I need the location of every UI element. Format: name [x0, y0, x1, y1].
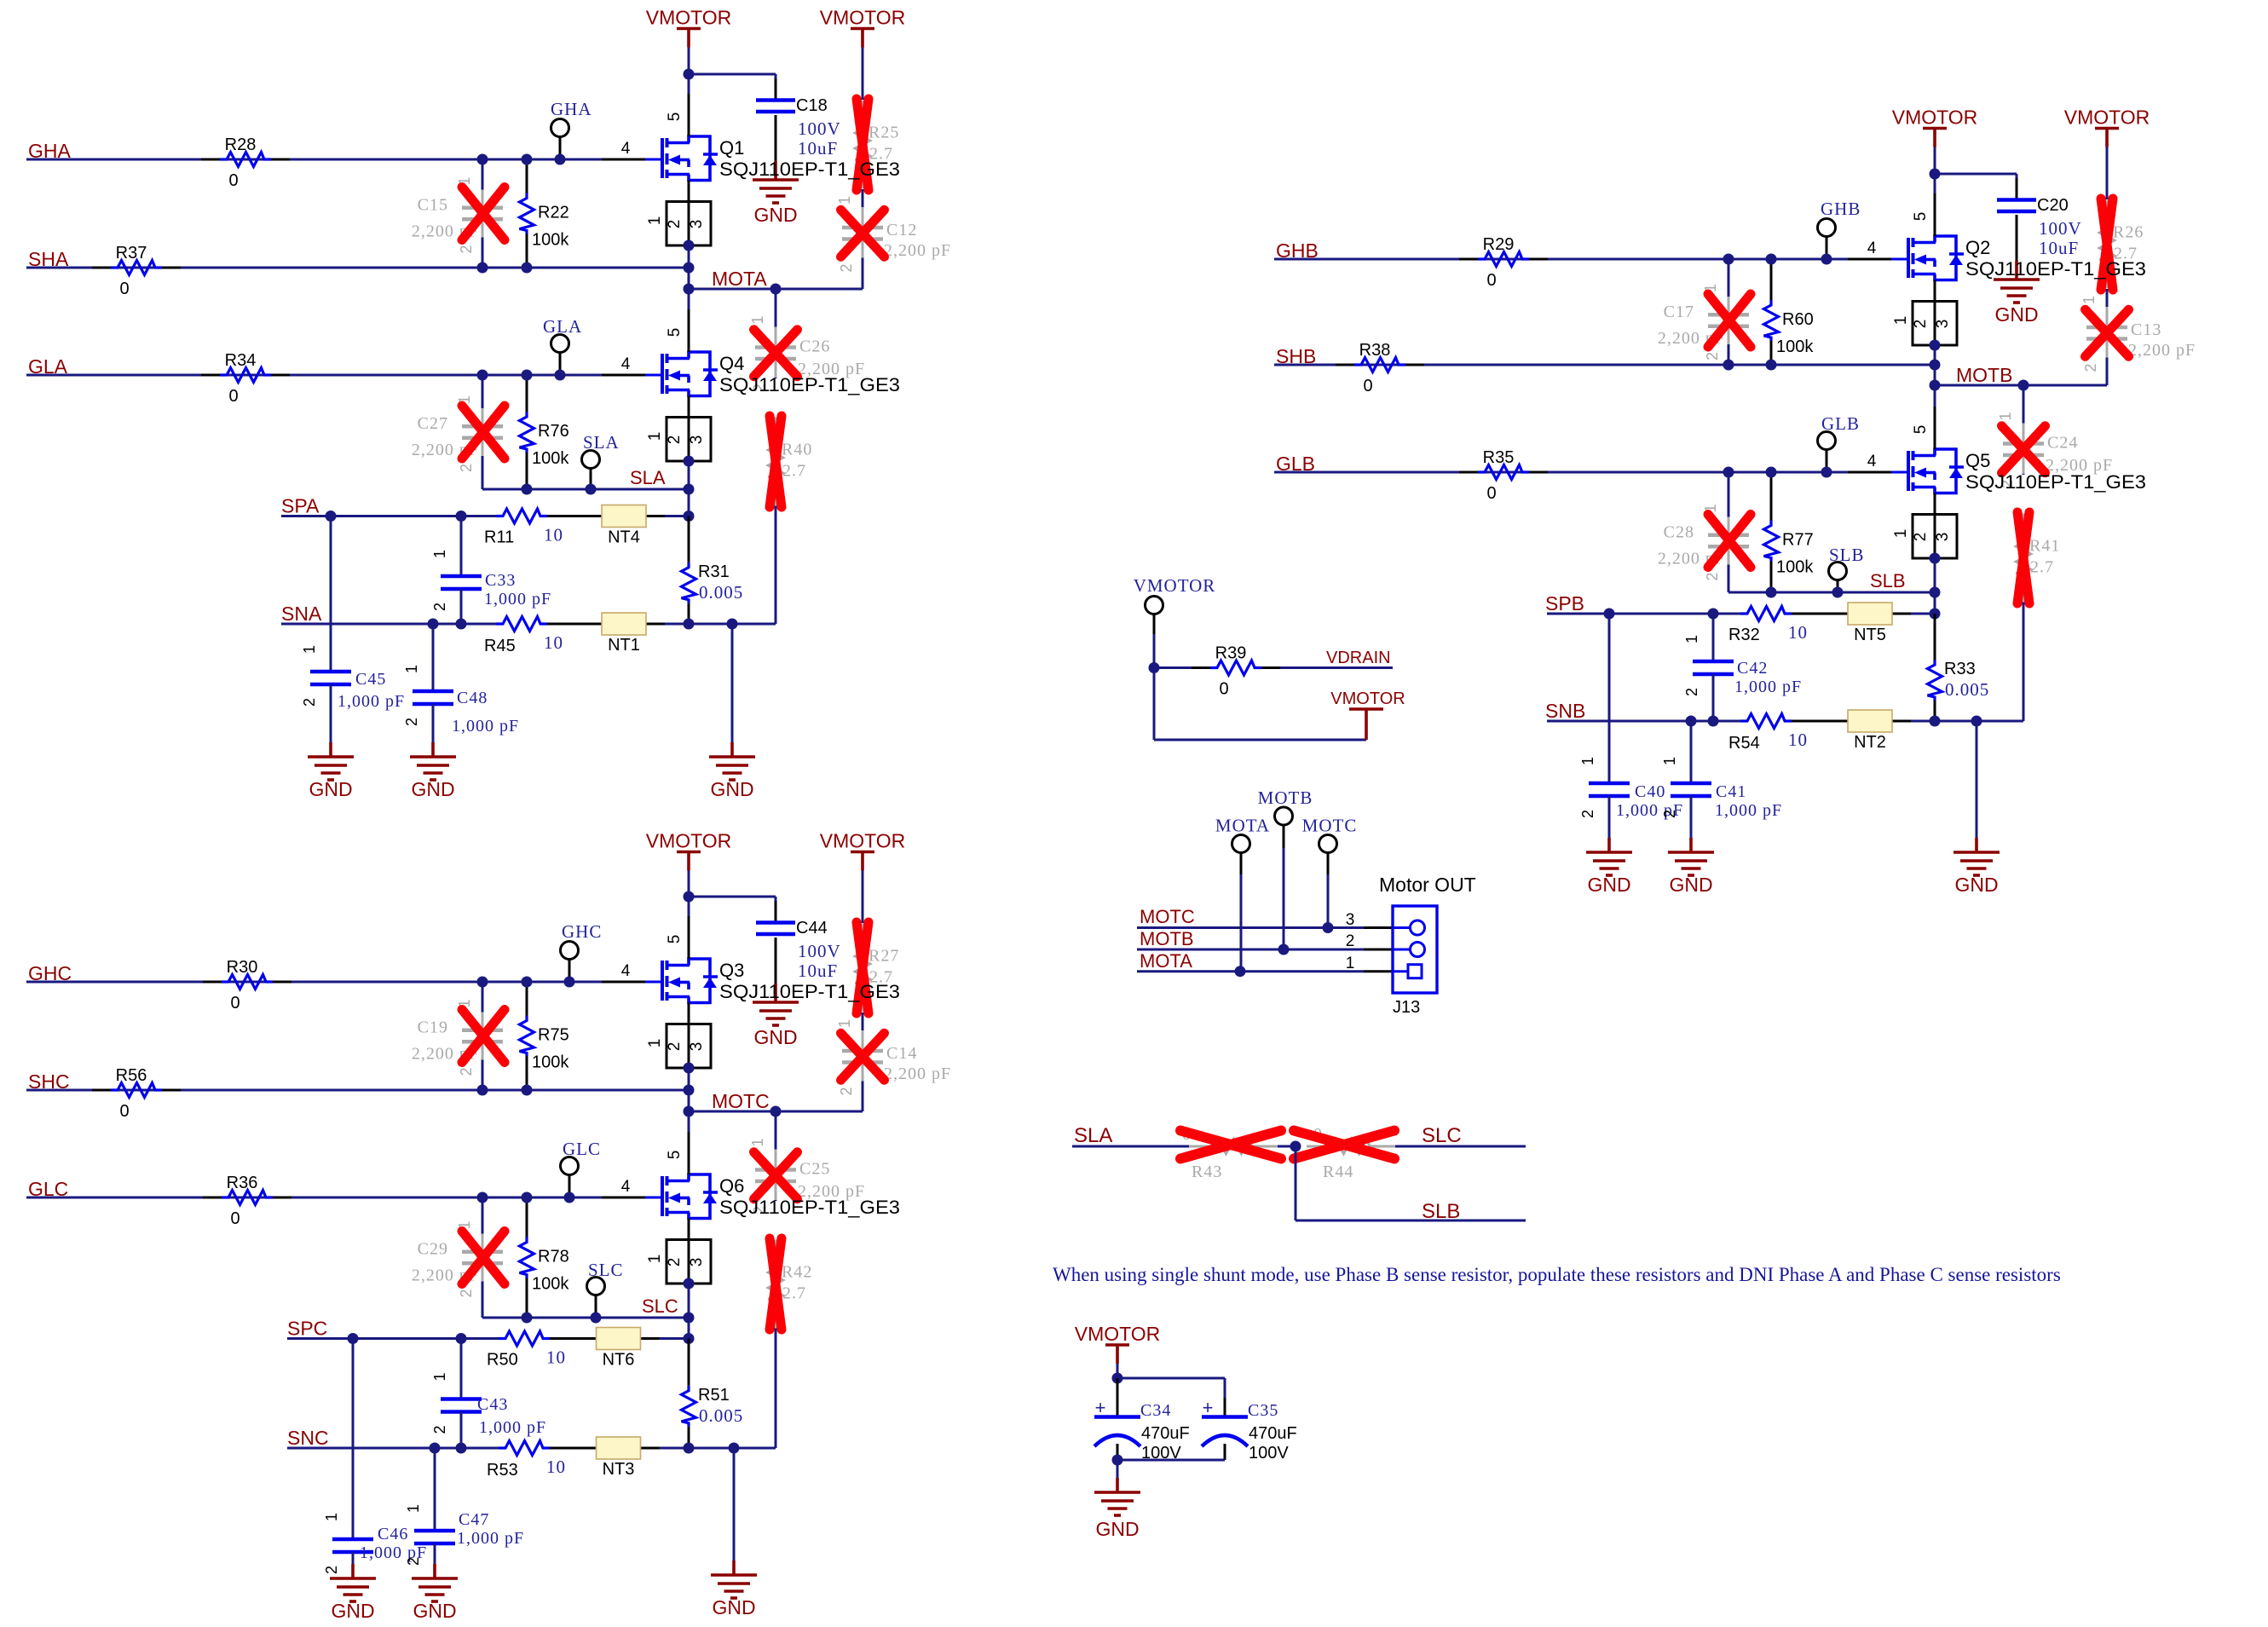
- terminal VMOTOR (VDRAIN feed): [1146, 597, 1163, 614]
- terminal SLC: [587, 1278, 605, 1295]
- svg-text:VDRAIN: VDRAIN: [1326, 649, 1391, 667]
- svg-text:GND: GND: [710, 778, 753, 800]
- capacitor C45 1,000 pF: [330, 516, 332, 672]
- resistor R39 0: [1154, 666, 1192, 669]
- node C19/SHC: [477, 1085, 488, 1096]
- wire junction to bypass cap C18: [689, 73, 776, 76]
- ground GND (SNA return): [731, 624, 734, 742]
- svg-text:C17: C17: [1664, 303, 1694, 321]
- svg-text:C44: C44: [796, 919, 828, 938]
- svg-text:1: 1: [749, 1138, 766, 1146]
- wire VMOTOR2 down: [862, 871, 864, 924]
- svg-text:4: 4: [1867, 239, 1877, 257]
- wire MOTA to J13 pin 1: [1137, 970, 1364, 972]
- svg-text:2: 2: [1661, 810, 1678, 818]
- node SNC/shunt: [684, 1443, 695, 1454]
- svg-text:470uF: 470uF: [1141, 1424, 1190, 1443]
- node GLC/C29: [477, 1192, 488, 1203]
- wire MOTB to J13 pin 2: [1137, 949, 1364, 951]
- node drain junction C-high: [684, 891, 695, 903]
- wire SNC row: [287, 1447, 499, 1450]
- capacitor C27 2,200 pF (DNI): [482, 375, 484, 408]
- terminal SLA: [582, 451, 600, 469]
- resistor R43 0 (DNI): [1189, 1145, 1208, 1148]
- wire SNB row: [1547, 720, 1740, 723]
- svg-text:NT2: NT2: [1854, 733, 1886, 752]
- svg-text:0: 0: [1486, 484, 1496, 503]
- wire GHB row: [1274, 258, 1848, 261]
- svg-text:C48: C48: [457, 689, 488, 707]
- svg-text:3: 3: [1346, 911, 1355, 929]
- svg-text:0.005: 0.005: [699, 1405, 743, 1426]
- node SLB terminal: [1832, 587, 1844, 598]
- resistor R50 10: [499, 1331, 550, 1346]
- wire GHC row: [26, 981, 602, 984]
- svg-text:SLC: SLC: [642, 1295, 678, 1317]
- node SLA terminal: [586, 484, 597, 495]
- svg-text:R54: R54: [1728, 734, 1760, 753]
- ground GND (SNB return): [1976, 721, 1978, 838]
- svg-text:2: 2: [2082, 363, 2099, 372]
- resistor R42 2.7 (DNI): [775, 1240, 777, 1264]
- node SNB/C41: [1686, 716, 1697, 727]
- svg-text:5: 5: [1912, 212, 1930, 222]
- resistor R56 0: [92, 1089, 111, 1092]
- node Q4 source: [684, 456, 695, 467]
- wire VMOTOR terminal down: [1153, 634, 1156, 668]
- svg-text:2: 2: [838, 263, 855, 272]
- wire VMOTOR stub down-right: [1153, 668, 1156, 741]
- svg-text:GND: GND: [411, 778, 454, 800]
- wire bottom rail: [1117, 1459, 1225, 1462]
- node SPC/C43: [456, 1333, 467, 1344]
- wire VMOTOR to drain junction: [688, 871, 690, 897]
- svg-text:1: 1: [646, 1039, 664, 1048]
- capacitor C25 2,200 pF (DNI): [775, 1111, 777, 1150]
- wire junction to bypass cap C20: [1935, 173, 2017, 176]
- svg-text:470uF: 470uF: [1249, 1424, 1297, 1443]
- svg-text:4: 4: [621, 140, 631, 158]
- svg-text:C40: C40: [1635, 782, 1665, 801]
- node GHC/C19: [477, 977, 488, 988]
- ground GND (SNC return): [733, 1448, 736, 1561]
- svg-text:2: 2: [1912, 533, 1930, 542]
- svg-text:5: 5: [1912, 425, 1930, 435]
- capacitor C17 2,200 pF (DNI): [1728, 259, 1730, 297]
- svg-text:0: 0: [228, 387, 238, 406]
- svg-text:1: 1: [1892, 529, 1910, 539]
- wire SL to sense node: [1934, 592, 1936, 614]
- svg-text:R42: R42: [782, 1263, 812, 1282]
- wire VMOTOR to drain junction: [688, 48, 690, 75]
- resistor R36 0: [203, 1197, 222, 1199]
- svg-text:MOTB: MOTB: [1140, 928, 1194, 949]
- wire junction to bypass cap C44: [689, 896, 776, 898]
- node R60/SHB: [1766, 360, 1777, 371]
- svg-text:R39: R39: [1215, 644, 1247, 663]
- resistor R37 0: [92, 267, 111, 269]
- node drain junction B-high: [1930, 169, 1941, 180]
- svg-text:R37: R37: [116, 244, 147, 263]
- svg-text:10uF: 10uF: [2039, 238, 2079, 258]
- wire MOTC terminal down: [1327, 874, 1330, 928]
- node R22/SHA: [522, 263, 533, 274]
- resistor R41 2.7 (DNI): [2023, 514, 2025, 538]
- svg-text:2: 2: [666, 436, 684, 445]
- resistor R44 0 (DNI): [1307, 1145, 1325, 1148]
- svg-text:C24: C24: [2047, 434, 2078, 453]
- capacitor C35 470uF 100V: [1224, 1398, 1226, 1416]
- svg-text:C45: C45: [355, 670, 386, 689]
- svg-text:2: 2: [431, 603, 448, 611]
- node GLC terminal: [564, 1192, 575, 1203]
- svg-text:GND: GND: [1669, 874, 1712, 896]
- svg-text:2: 2: [666, 1258, 684, 1267]
- svg-text:Motor OUT: Motor OUT: [1379, 874, 1476, 896]
- svg-text:R60: R60: [1782, 310, 1814, 329]
- svg-text:0: 0: [230, 1209, 239, 1228]
- capacitor C26 2,200 pF (DNI): [775, 289, 777, 327]
- svg-text:SQJ110EP-T1_GE3: SQJ110EP-T1_GE3: [719, 981, 900, 1002]
- svg-text:0.005: 0.005: [699, 582, 743, 603]
- node drain junction A-high: [684, 69, 695, 80]
- svg-text:3: 3: [1934, 320, 1952, 329]
- svg-text:MOTB: MOTB: [1258, 788, 1313, 808]
- resistor R29 0: [1459, 258, 1478, 261]
- terminal GLC: [561, 1157, 579, 1175]
- svg-text:0: 0: [1363, 377, 1372, 395]
- svg-text:R38: R38: [1359, 341, 1391, 360]
- svg-text:C43: C43: [477, 1395, 508, 1414]
- node GHB/C17: [1723, 254, 1734, 265]
- svg-text:5: 5: [666, 1151, 684, 1160]
- svg-text:C27: C27: [418, 414, 448, 433]
- svg-text:NT5: NT5: [1854, 626, 1886, 644]
- svg-text:0: 0: [1486, 271, 1496, 290]
- resistor R11 10: [496, 509, 547, 523]
- svg-text:C46: C46: [378, 1525, 408, 1543]
- svg-text:2: 2: [323, 1566, 340, 1574]
- ground GND (under C40): [1607, 838, 1611, 852]
- svg-text:Q1: Q1: [719, 137, 744, 159]
- node SNC/gnd: [729, 1443, 740, 1454]
- svg-text:2,200 pF: 2,200 pF: [884, 241, 951, 260]
- wire SNA row: [281, 623, 496, 626]
- svg-text:1,000 pF: 1,000 pF: [1734, 678, 1802, 696]
- svg-text:R28: R28: [225, 136, 257, 154]
- svg-text:+: +: [1095, 1397, 1106, 1418]
- svg-text:NT4: NT4: [608, 528, 640, 547]
- svg-text:4: 4: [621, 1178, 631, 1196]
- wire GHA row: [26, 159, 602, 161]
- pin box Q2 pins 1 2 3: [1934, 280, 1936, 302]
- node SPA/C33: [456, 511, 467, 522]
- svg-text:4: 4: [621, 355, 631, 373]
- node Q5 source: [1930, 553, 1941, 564]
- svg-text:1,000 pF: 1,000 pF: [452, 717, 519, 736]
- wire GLA row: [26, 374, 602, 377]
- svg-text:5: 5: [666, 328, 684, 338]
- svg-text:3: 3: [688, 1258, 706, 1267]
- node SHA/source: [684, 263, 695, 274]
- node MOTA/snubber mid: [770, 284, 782, 295]
- terminal GHB: [1818, 219, 1836, 237]
- svg-text:MOTC: MOTC: [1140, 906, 1195, 927]
- node SNA/shunt: [684, 619, 695, 630]
- svg-text:2: 2: [1346, 932, 1355, 950]
- node GLA/R76: [522, 370, 533, 381]
- capacitor C20 100V 10uF: [2016, 178, 2018, 200]
- node SPC output: [684, 1333, 695, 1344]
- node SNA/C48: [428, 619, 439, 630]
- node R77/SLB: [1766, 587, 1777, 598]
- wire source to SL row: [688, 461, 690, 489]
- wire between DNI parts: [862, 1013, 864, 1038]
- capacitor C14 2,200 pF (DNI): [862, 1030, 864, 1038]
- svg-text:VMOTOR: VMOTOR: [646, 7, 732, 29]
- wire GLB row: [1274, 471, 1848, 474]
- node GHB terminal: [1821, 254, 1832, 265]
- svg-text:SPB: SPB: [1545, 592, 1584, 614]
- capacitor C18 100V 10uF: [775, 78, 777, 101]
- wire SH to MOT row: [688, 268, 690, 289]
- wire R44 to SLC: [1395, 1145, 1526, 1148]
- svg-text:2,200 pF: 2,200 pF: [2128, 341, 2196, 360]
- svg-text:Q6: Q6: [719, 1175, 744, 1197]
- terminal MOTC: [1319, 835, 1337, 853]
- svg-text:R43: R43: [1192, 1163, 1222, 1181]
- node GLC/R78: [522, 1192, 533, 1203]
- net-tie NT6: [597, 1328, 641, 1350]
- svg-text:4: 4: [621, 962, 631, 980]
- svg-text:2: 2: [1704, 572, 1721, 580]
- svg-text:GND: GND: [753, 204, 797, 226]
- svg-text:C18: C18: [796, 96, 828, 115]
- svg-text:100V: 100V: [798, 118, 841, 139]
- svg-text:1: 1: [1579, 757, 1596, 765]
- terminal MOTA: [1232, 835, 1250, 853]
- wire snubber to SN row: [775, 506, 777, 625]
- svg-text:2: 2: [838, 1087, 855, 1095]
- node SNC/C43 pin2: [456, 1443, 467, 1454]
- svg-text:0: 0: [230, 994, 239, 1013]
- svg-text:Q3: Q3: [719, 960, 744, 981]
- svg-text:C47: C47: [459, 1510, 489, 1529]
- svg-text:C26: C26: [799, 338, 830, 356]
- svg-text:100V: 100V: [798, 941, 841, 961]
- node SPB output: [1930, 609, 1941, 620]
- node MOTA/J13: [1235, 966, 1246, 977]
- svg-text:3: 3: [688, 220, 706, 229]
- svg-text:100V: 100V: [1249, 1444, 1289, 1463]
- svg-text:GND: GND: [413, 1600, 456, 1622]
- node MOTB/J13: [1278, 944, 1290, 955]
- resistor R34 0: [201, 374, 220, 377]
- svg-text:1: 1: [403, 665, 420, 673]
- svg-text:3: 3: [688, 1042, 706, 1052]
- svg-text:R34: R34: [225, 351, 257, 370]
- svg-text:10: 10: [546, 1347, 566, 1368]
- net-tie NT1: [602, 613, 646, 635]
- node SNB/C42 pin2: [1708, 716, 1719, 727]
- svg-text:C28: C28: [1664, 523, 1694, 542]
- capacitor C13 2,200 pF (DNI): [2106, 307, 2109, 314]
- capacitor C42 1,000 pF: [1712, 614, 1715, 661]
- svg-text:SQJ110EP-T1_GE3: SQJ110EP-T1_GE3: [1965, 471, 2146, 493]
- node SLC terminal: [591, 1313, 602, 1324]
- node SNB/gnd: [1971, 716, 1982, 727]
- svg-text:R40: R40: [782, 441, 812, 459]
- svg-text:C14: C14: [886, 1044, 917, 1063]
- svg-text:MOTC: MOTC: [1302, 816, 1358, 836]
- wire SPB row: [1547, 613, 1740, 615]
- capacitor C33 1,000 pF: [460, 516, 463, 577]
- net-tie NT3: [597, 1437, 641, 1459]
- wire VMOTOR2 down: [862, 48, 864, 101]
- wire node to SLB: [1295, 1146, 1297, 1220]
- wire MOTB row: [1935, 384, 2107, 387]
- capacitor C43 1,000 pF: [460, 1339, 463, 1399]
- node C15/SHA: [477, 263, 488, 274]
- svg-text:MOTA: MOTA: [1215, 816, 1270, 836]
- svg-text:SNB: SNB: [1545, 700, 1585, 722]
- wire MOTC row: [689, 1111, 863, 1113]
- wire MOTA row: [689, 288, 863, 291]
- wire source to SH row: [1934, 345, 1936, 365]
- capacitor C40 1,000 pF: [1608, 614, 1611, 783]
- svg-text:4: 4: [1867, 453, 1877, 470]
- net-tie NT4: [602, 505, 646, 528]
- wire SLA row: [482, 488, 689, 491]
- wire source to SL row: [688, 1284, 690, 1318]
- resistor R27 2.7 (DNI): [862, 924, 864, 948]
- node MOTB/phase: [1930, 380, 1941, 391]
- svg-text:2,200 pF: 2,200 pF: [884, 1064, 951, 1083]
- svg-text:2: 2: [301, 698, 318, 707]
- terminal GHA: [551, 119, 569, 137]
- wire snubber to SN row: [775, 1329, 777, 1449]
- svg-text:C29: C29: [418, 1240, 448, 1259]
- svg-text:VMOTOR: VMOTOR: [820, 7, 906, 29]
- wire source to SH row: [688, 245, 690, 268]
- svg-text:SLC: SLC: [1422, 1124, 1462, 1147]
- node Q1 source: [684, 240, 695, 251]
- svg-text:1: 1: [749, 315, 766, 324]
- svg-text:1: 1: [431, 550, 448, 558]
- svg-text:GND: GND: [1994, 303, 2038, 326]
- svg-text:5: 5: [666, 935, 684, 944]
- wire R39 to VDRAIN: [1280, 666, 1393, 669]
- svg-text:NT1: NT1: [608, 636, 640, 655]
- svg-text:C33: C33: [485, 571, 516, 590]
- wire snubber to SN row: [2023, 603, 2025, 722]
- resistor R60 100k: [1770, 259, 1773, 300]
- svg-text:SQJ110EP-T1_GE3: SQJ110EP-T1_GE3: [1965, 258, 2146, 280]
- wire VMOTOR to drain junction: [1934, 147, 1936, 175]
- pin box Q4 pins 1 2 3: [688, 396, 690, 418]
- svg-text:R29: R29: [1483, 235, 1515, 254]
- svg-text:0: 0: [119, 280, 129, 298]
- wire SH to MOT row: [1934, 365, 1936, 385]
- svg-text:SQJ110EP-T1_GE3: SQJ110EP-T1_GE3: [719, 159, 900, 180]
- wire source to SL row: [1934, 558, 1936, 592]
- svg-text:R25: R25: [869, 124, 899, 142]
- svg-text:R41: R41: [2029, 537, 2060, 556]
- wire source to SH row: [688, 1068, 690, 1090]
- svg-text:R51: R51: [698, 1386, 730, 1405]
- wire R43 to node: [1278, 1145, 1296, 1148]
- svg-text:MOTB: MOTB: [1956, 364, 2012, 386]
- resistor R32 10: [1740, 607, 1792, 621]
- node Q3 source: [684, 1063, 695, 1074]
- svg-text:C12: C12: [886, 221, 917, 239]
- resistor R26 2.7 (DNI): [2106, 200, 2109, 224]
- svg-text:3: 3: [688, 436, 706, 445]
- svg-text:1: 1: [2080, 296, 2098, 304]
- svg-text:MOTC: MOTC: [712, 1090, 770, 1112]
- node SLB/source: [1930, 587, 1941, 598]
- svg-text:R76: R76: [538, 422, 569, 441]
- node SLA/source: [684, 484, 695, 495]
- svg-text:Q5: Q5: [1965, 450, 1990, 471]
- svg-text:SLB: SLB: [1870, 570, 1906, 591]
- node GLA terminal: [555, 370, 566, 381]
- ground GND (bulk caps): [1117, 1460, 1119, 1478]
- node SHB/source: [1930, 360, 1941, 371]
- svg-text:100k: 100k: [532, 231, 569, 250]
- ground GND (under C18): [774, 161, 777, 180]
- svg-text:C19: C19: [418, 1018, 448, 1037]
- node GHA/C15: [477, 154, 488, 165]
- svg-text:SNA: SNA: [281, 603, 322, 625]
- net-tie NT2: [1848, 710, 1892, 732]
- node MOTC/snubber mid: [770, 1106, 782, 1117]
- node GLB/R77: [1766, 467, 1777, 478]
- capacitor C19 2,200 pF (DNI): [482, 982, 484, 1013]
- net-tie NT5: [1848, 603, 1892, 625]
- svg-text:10: 10: [544, 632, 563, 653]
- node C34/GND: [1112, 1455, 1123, 1466]
- svg-text:GLA: GLA: [543, 316, 582, 337]
- svg-text:10: 10: [546, 1457, 566, 1477]
- svg-text:NT3: NT3: [603, 1460, 635, 1479]
- resistor R22 100k: [526, 159, 528, 193]
- svg-text:R26: R26: [2113, 223, 2144, 242]
- svg-text:C25: C25: [799, 1160, 830, 1179]
- svg-text:0: 0: [119, 1102, 129, 1121]
- svg-text:SQJ110EP-T1_GE3: SQJ110EP-T1_GE3: [719, 1197, 900, 1218]
- svg-text:SLB: SLB: [1829, 545, 1865, 565]
- svg-text:GLB: GLB: [1821, 413, 1860, 434]
- svg-text:3: 3: [1934, 533, 1952, 542]
- wire VMOTOR2 down: [2106, 147, 2109, 200]
- svg-text:R33: R33: [1944, 660, 1976, 678]
- node GLB terminal: [1821, 467, 1832, 478]
- node Q2 source: [1930, 340, 1941, 351]
- svg-text:R75: R75: [538, 1026, 569, 1045]
- svg-text:10uF: 10uF: [798, 138, 838, 159]
- svg-text:SPA: SPA: [281, 495, 320, 517]
- resistor R25 2.7 (DNI): [862, 101, 864, 124]
- svg-text:1: 1: [836, 1019, 853, 1028]
- transistor Q6 SQJ110EP-T1_GE3 (low side): [661, 1176, 664, 1216]
- node VMOTOR/R39: [1149, 662, 1160, 673]
- svg-text:SQJ110EP-T1_GE3: SQJ110EP-T1_GE3: [719, 374, 900, 395]
- pin J13-1: [1393, 970, 1408, 972]
- ground GND (under C47): [433, 1564, 436, 1578]
- svg-text:1: 1: [646, 432, 664, 441]
- svg-text:MOTA: MOTA: [1140, 950, 1192, 972]
